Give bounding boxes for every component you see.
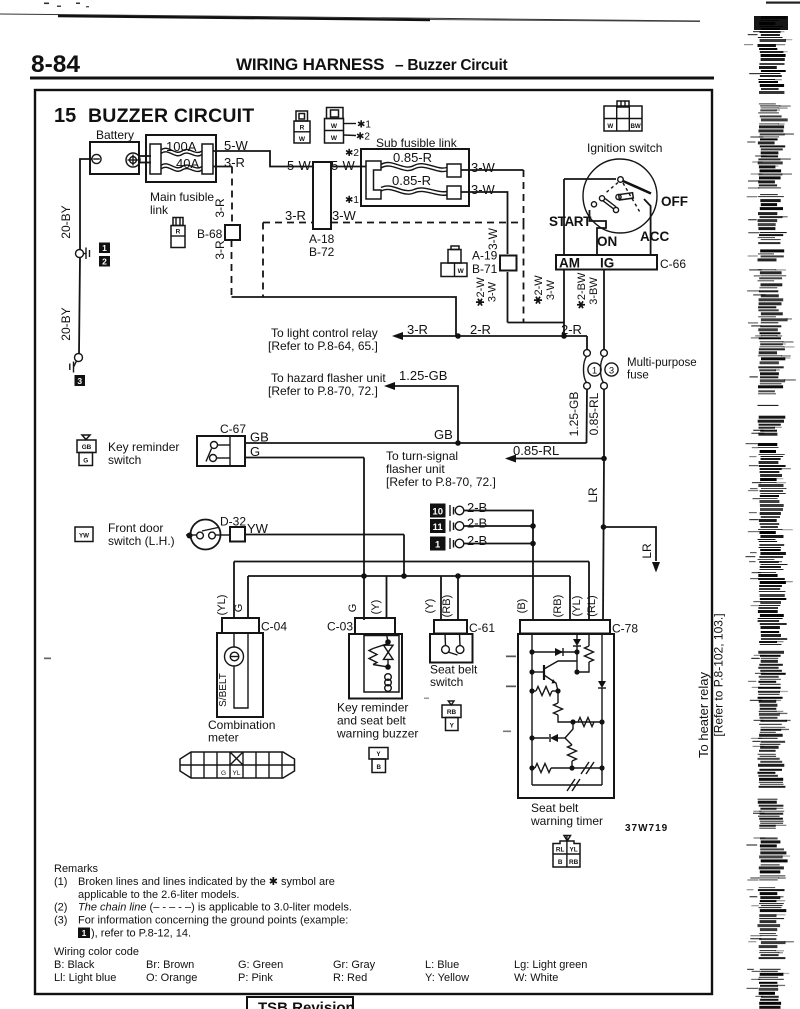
svg-text:3-W: 3-W <box>486 227 500 250</box>
svg-text:C-66: C-66 <box>660 257 686 271</box>
svg-text:W: White: W: White <box>514 972 558 984</box>
svg-text:START: START <box>549 214 592 229</box>
svg-text:0.85-R: 0.85-R <box>392 173 431 188</box>
svg-text:20-BY: 20-BY <box>59 307 73 340</box>
svg-text:ON: ON <box>597 234 617 249</box>
svg-text:3-R: 3-R <box>213 240 227 260</box>
svg-text:), refer to P.8-12, 14.: ), refer to P.8-12, 14. <box>91 928 191 940</box>
svg-text:✱2-W: ✱2-W <box>475 277 487 307</box>
svg-text:W: W <box>607 123 613 130</box>
svg-text:B: Black: B: Black <box>54 959 95 971</box>
svg-text:To heater relay: To heater relay <box>696 672 711 758</box>
svg-text:Broken lines and lines indicat: Broken lines and lines indicated by the … <box>78 876 335 888</box>
svg-text:(YL): (YL) <box>571 596 583 617</box>
svg-text:2-R: 2-R <box>470 322 491 337</box>
svg-text:Battery: Battery <box>96 128 134 142</box>
svg-text:10: 10 <box>432 507 443 518</box>
svg-text:B-68: B-68 <box>197 227 223 241</box>
svg-text:Sub fusible link: Sub fusible link <box>376 136 458 150</box>
svg-text:A-19: A-19 <box>472 249 498 263</box>
svg-text:37W719: 37W719 <box>625 823 668 834</box>
svg-text:For information concerning the: For information concerning the ground po… <box>78 915 348 927</box>
svg-text:W: W <box>331 135 338 142</box>
svg-text:switch: switch <box>108 453 141 467</box>
svg-text:(RB): (RB) <box>441 595 453 618</box>
svg-text:1.25-GB: 1.25-GB <box>399 368 447 383</box>
svg-text:link: link <box>150 203 169 217</box>
svg-text:warning buzzer: warning buzzer <box>336 727 418 741</box>
svg-text:C-04: C-04 <box>261 620 287 634</box>
svg-text:3-R: 3-R <box>407 322 428 337</box>
svg-text:5-W: 5-W <box>287 158 312 173</box>
svg-text:Br: Brown: Br: Brown <box>146 959 194 971</box>
svg-text:3: 3 <box>77 376 82 386</box>
svg-text:1: 1 <box>102 243 107 253</box>
svg-text:Key reminder: Key reminder <box>108 440 179 454</box>
svg-text:G: G <box>221 770 226 777</box>
svg-text:B-71: B-71 <box>472 262 498 276</box>
svg-text:3-W: 3-W <box>332 208 357 223</box>
svg-text:Main fusible: Main fusible <box>150 190 214 204</box>
svg-text:3: 3 <box>609 366 614 377</box>
svg-text:3-R: 3-R <box>213 198 227 218</box>
svg-text:B-72: B-72 <box>309 245 335 259</box>
svg-text:Seat belt: Seat belt <box>531 801 579 815</box>
svg-text:11: 11 <box>433 522 444 533</box>
svg-text:W: W <box>458 268 465 275</box>
svg-text:L: Blue: L: Blue <box>425 959 459 971</box>
svg-text:warning timer: warning timer <box>530 814 603 828</box>
svg-text:C-03: C-03 <box>327 620 353 634</box>
svg-text:G: G <box>347 604 359 613</box>
svg-text:(YL): (YL) <box>216 595 228 616</box>
svg-text:[Refer to P.8-102, 103.]: [Refer to P.8-102, 103.] <box>712 613 726 736</box>
svg-text:3-W: 3-W <box>545 279 557 300</box>
svg-text:2-R: 2-R <box>561 322 582 337</box>
svg-text:3-R: 3-R <box>224 155 245 170</box>
svg-text:(Y): (Y) <box>370 600 382 615</box>
svg-text:0.85-RL: 0.85-RL <box>587 392 601 435</box>
svg-text:A-18: A-18 <box>309 232 335 246</box>
svg-text:AM: AM <box>559 256 580 271</box>
svg-text:ACC: ACC <box>640 229 669 244</box>
svg-text:C-78: C-78 <box>612 622 638 636</box>
svg-text:To hazard flasher unit: To hazard flasher unit <box>271 371 386 385</box>
svg-text:BW: BW <box>630 123 640 130</box>
svg-text:100A: 100A <box>166 139 197 154</box>
svg-text:RL: RL <box>556 847 565 854</box>
svg-text:✱2: ✱2 <box>356 132 370 143</box>
svg-text:O: Orange: O: Orange <box>146 972 197 984</box>
svg-text:Lg: Light green: Lg: Light green <box>514 959 587 971</box>
svg-text:(Y): (Y) <box>424 599 436 614</box>
svg-text:GB: GB <box>82 444 92 451</box>
svg-text:1: 1 <box>435 540 441 551</box>
svg-text:1.25-GB: 1.25-GB <box>567 392 581 437</box>
svg-text:Ll: Light blue: Ll: Light blue <box>54 972 116 984</box>
svg-text:(3): (3) <box>54 915 67 927</box>
svg-text:G: G <box>83 458 88 465</box>
svg-text:(1): (1) <box>54 876 67 888</box>
svg-text:YL: YL <box>233 770 241 777</box>
svg-text:20-BY: 20-BY <box>59 205 73 238</box>
svg-text:[Refer to P.8-70, 72.]: [Refer to P.8-70, 72.] <box>386 475 496 489</box>
svg-text:switch (L.H.): switch (L.H.) <box>108 534 175 548</box>
svg-text:R: R <box>176 229 181 236</box>
svg-text:5-W: 5-W <box>331 158 356 173</box>
svg-text:1: 1 <box>82 928 87 938</box>
svg-text:40A: 40A <box>176 156 199 171</box>
svg-text:2-B: 2-B <box>467 533 487 548</box>
svg-text:(B): (B) <box>516 599 528 614</box>
svg-text:Multi-purpose: Multi-purpose <box>627 357 697 369</box>
svg-text:LR: LR <box>586 487 600 503</box>
svg-text:(2): (2) <box>54 902 67 914</box>
svg-text:GB: GB <box>434 427 453 442</box>
svg-text:[Refer to P.8-64, 65.]: [Refer to P.8-64, 65.] <box>268 339 378 353</box>
svg-text:BUZZER CIRCUIT: BUZZER CIRCUIT <box>88 105 254 127</box>
svg-text:flasher unit: flasher unit <box>386 462 445 476</box>
svg-text:G: Green: G: Green <box>238 959 283 971</box>
svg-text:1: 1 <box>592 366 597 377</box>
svg-text:fuse: fuse <box>627 370 649 382</box>
svg-text:✱2-BW: ✱2-BW <box>576 272 588 309</box>
svg-text:RB: RB <box>569 859 579 866</box>
svg-text:Front door: Front door <box>108 521 163 535</box>
svg-text:2: 2 <box>102 257 107 267</box>
svg-text:GB: GB <box>250 430 269 445</box>
svg-text:8-84: 8-84 <box>31 51 80 78</box>
svg-text:[Refer to P.8-70, 72.]: [Refer to P.8-70, 72.] <box>268 384 378 398</box>
svg-text:✱1: ✱1 <box>345 195 359 206</box>
svg-text:2-B: 2-B <box>467 500 487 515</box>
svg-text:Y: Y <box>450 723 455 730</box>
svg-text:0.85-R: 0.85-R <box>393 150 432 165</box>
svg-text:RB: RB <box>447 709 457 716</box>
svg-text:To turn-signal: To turn-signal <box>386 449 458 463</box>
svg-text:3-R: 3-R <box>285 208 306 223</box>
svg-text:applicable to the 2.6-liter mo: applicable to the 2.6-liter models. <box>78 889 239 901</box>
svg-text:LR: LR <box>640 543 654 559</box>
svg-text:3-BW: 3-BW <box>588 277 600 305</box>
svg-text:W: W <box>331 123 338 130</box>
svg-text:To light control relay: To light control relay <box>271 326 378 340</box>
svg-text:3-W: 3-W <box>487 281 499 302</box>
svg-text:✱1: ✱1 <box>357 120 371 131</box>
svg-text:and seat belt: and seat belt <box>337 714 406 728</box>
svg-text:✱2-W: ✱2-W <box>533 275 545 305</box>
svg-text:0.85-RL: 0.85-RL <box>513 443 559 458</box>
svg-text:G: G <box>233 604 245 613</box>
svg-text:B: B <box>558 859 563 866</box>
svg-text:15: 15 <box>54 105 76 127</box>
svg-text:R: R <box>300 125 305 132</box>
svg-text:C-67: C-67 <box>220 422 246 436</box>
svg-text:C-61: C-61 <box>469 621 495 635</box>
svg-text:Ignition switch: Ignition switch <box>587 141 662 155</box>
svg-text:B: B <box>376 764 381 771</box>
svg-text:3-W: 3-W <box>471 182 496 197</box>
svg-text:R: Red: R: Red <box>333 972 367 984</box>
svg-text:Gr: Gray: Gr: Gray <box>333 959 376 971</box>
svg-text:TSB Revision: TSB Revision <box>258 1000 355 1009</box>
svg-text:(RB): (RB) <box>552 595 564 618</box>
svg-text:Key reminder: Key reminder <box>337 701 408 715</box>
svg-text:WIRING HARNESS: WIRING HARNESS <box>236 55 384 74</box>
svg-text:Wiring color code: Wiring color code <box>54 946 139 958</box>
svg-text:P: Pink: P: Pink <box>238 972 273 984</box>
svg-text:3-W: 3-W <box>471 160 496 175</box>
svg-text:– Buzzer Circuit: – Buzzer Circuit <box>395 57 507 74</box>
svg-text:S/BELT: S/BELT <box>218 673 229 707</box>
svg-text:W: W <box>299 136 306 143</box>
svg-text:switch: switch <box>430 675 463 689</box>
svg-text:2-B: 2-B <box>467 516 487 531</box>
svg-text:Y: Yellow: Y: Yellow <box>425 972 469 984</box>
svg-text:YL: YL <box>570 847 578 854</box>
svg-text:The chain line (– - – - –) is: The chain line (– - – - –) is applicable… <box>78 902 352 914</box>
svg-text:YW: YW <box>79 533 89 540</box>
svg-text:meter: meter <box>208 731 239 745</box>
svg-text:IG: IG <box>600 256 614 271</box>
svg-text:(RL): (RL) <box>586 595 598 616</box>
svg-text:Remarks: Remarks <box>54 863 99 875</box>
svg-text:OFF: OFF <box>661 194 688 209</box>
